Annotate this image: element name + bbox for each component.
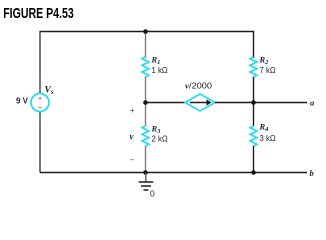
svg-text:2 kΩ: 2 kΩ [152,134,168,143]
svg-text:−: − [38,103,43,112]
wire right upper [253,31,255,58]
svg-text:0: 0 [150,188,155,197]
wire middle right [215,102,307,104]
svg-text:3 kΩ: 3 kΩ [260,134,276,143]
wire center branch middle [145,77,147,126]
svg-text:+: + [38,96,42,103]
svg-text:9 V: 9 V [16,97,29,106]
wire bottom [40,172,307,174]
svg-text:R3: R3 [151,124,162,136]
wire left lower [39,112,41,173]
wire left upper [39,31,41,94]
svg-text:Vs: Vs [45,86,54,97]
junction bottom-right [251,170,256,175]
resistor R1 [142,57,149,77]
svg-text:R1: R1 [151,55,161,67]
svg-text:R4: R4 [259,122,270,134]
svg-text:v: v [130,132,135,142]
junction mid-right [251,100,256,105]
wire top [40,31,254,33]
dependent current source v/2000 [185,94,215,111]
svg-text:R2: R2 [259,55,270,67]
svg-text:−: − [130,156,135,165]
svg-text:7 kΩ: 7 kΩ [260,66,276,75]
wire right middle [253,77,255,126]
svg-text:+: + [130,106,135,115]
junction top [143,29,148,34]
svg-text:b: b [310,168,314,178]
resistor R3 [142,126,149,146]
junction mid-left [143,100,148,105]
svg-text:v/2000: v/2000 [185,80,212,90]
resistor R2 [250,57,257,77]
svg-text:1 kΩ: 1 kΩ [152,66,168,75]
resistor R4 [250,126,257,146]
junction ground [143,170,148,175]
ground [139,173,154,191]
wire middle left [146,102,186,104]
svg-text:a: a [310,97,315,107]
voltage source Vs [31,94,49,112]
wire right lower [253,146,255,173]
wire center branch lower [145,146,147,173]
wire center branch upper [145,32,147,59]
svg-text:FIGURE P4.53: FIGURE P4.53 [3,5,74,21]
